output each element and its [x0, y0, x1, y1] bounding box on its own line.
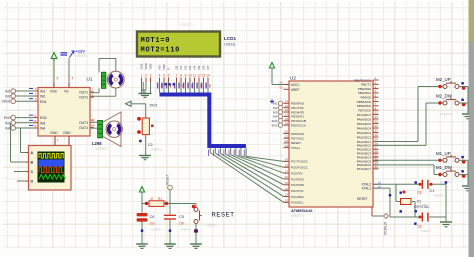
- svg-text:22: 22: [285, 139, 289, 143]
- svg-text:R1: R1: [158, 197, 162, 201]
- svg-text:PC0/SCL: PC0/SCL: [291, 201, 304, 205]
- svg-text:XTAL1: XTAL1: [291, 146, 300, 150]
- svg-text:PA6/ADC6: PA6/ADC6: [357, 117, 372, 121]
- svg-text:11: 11: [193, 74, 197, 78]
- svg-text:9: 9: [185, 74, 187, 78]
- svg-text:12: 12: [197, 74, 201, 78]
- svg-text:OUT2: OUT2: [79, 96, 88, 100]
- svg-text:D6: D6: [202, 65, 206, 69]
- svg-text:EN2: EN2: [40, 116, 47, 120]
- svg-text:11: 11: [91, 118, 94, 122]
- svg-text:MOT2=110: MOT2=110: [141, 47, 181, 55]
- svg-text:10: 10: [188, 74, 192, 78]
- svg-text:3: 3: [150, 74, 152, 78]
- svg-text:PA7/ADC7: PA7/ADC7: [357, 167, 372, 171]
- svg-text:<TEXT>: <TEXT>: [180, 228, 191, 232]
- svg-text:4: 4: [72, 77, 74, 81]
- svg-text:29: 29: [285, 158, 289, 162]
- svg-text:47: 47: [150, 197, 154, 201]
- svg-text:IN1: IN1: [40, 90, 45, 94]
- svg-text:22: 22: [285, 199, 289, 203]
- svg-text:23: 23: [285, 193, 289, 197]
- svg-text:PA5/ADC5: PA5/ADC5: [357, 122, 372, 126]
- svg-text:37: 37: [375, 129, 379, 133]
- svg-text:14: 14: [206, 74, 210, 78]
- svg-text:12: 12: [33, 124, 37, 128]
- svg-text:IN2: IN2: [5, 95, 10, 99]
- svg-text:VDD: VDD: [144, 62, 148, 69]
- svg-text:D4: D4: [193, 65, 197, 69]
- svg-text:ATMEGA16: ATMEGA16: [291, 208, 313, 213]
- svg-text:RESET: RESET: [357, 197, 368, 201]
- svg-text:<TEXT>: <TEXT>: [206, 224, 217, 228]
- svg-text:VEN1: VEN1: [2, 100, 11, 104]
- svg-text:C6: C6: [150, 215, 155, 219]
- svg-text:9: 9: [57, 77, 59, 81]
- svg-text:D7: D7: [206, 65, 210, 69]
- svg-text:<TEXT>: <TEXT>: [420, 229, 431, 233]
- svg-text:C2: C2: [148, 143, 153, 147]
- svg-text:1: 1: [141, 74, 143, 78]
- svg-text:PD7/OC2: PD7/OC2: [291, 137, 304, 141]
- svg-text:EN2: EN2: [4, 116, 11, 120]
- svg-text:<TEXT>: <TEXT>: [151, 228, 162, 232]
- svg-text:IN1: IN1: [5, 90, 10, 94]
- svg-text:D3: D3: [188, 65, 192, 69]
- svg-text:D1: D1: [179, 65, 183, 69]
- svg-text:U2: U2: [290, 76, 296, 81]
- svg-text:GND: GND: [50, 131, 58, 135]
- svg-text:M2_DW: M2_DW: [436, 94, 453, 99]
- svg-text:+12V: +12V: [76, 49, 86, 54]
- svg-text:VSS: VSS: [140, 63, 144, 69]
- svg-text:2: 2: [145, 74, 147, 78]
- svg-text:22p: 22p: [417, 191, 423, 195]
- svg-text:PA2/ADC2: PA2/ADC2: [357, 135, 372, 139]
- svg-text:33: 33: [375, 111, 379, 115]
- svg-text:20: 20: [285, 130, 289, 134]
- svg-text:<TEXT>: <TEXT>: [150, 148, 162, 152]
- svg-text:28: 28: [285, 163, 289, 167]
- svg-text:D: D: [31, 180, 34, 184]
- svg-text:10u: 10u: [150, 222, 156, 226]
- svg-text:XTAL1: XTAL1: [361, 186, 371, 190]
- svg-text:OUT3: OUT3: [79, 121, 88, 125]
- svg-text:10: 10: [33, 119, 37, 123]
- svg-text:PA7/ADC7: PA7/ADC7: [357, 113, 372, 117]
- svg-text:RESET: RESET: [166, 174, 170, 185]
- svg-text:M1_UP: M1_UP: [436, 151, 451, 156]
- svg-text:<TEXT>: <TEXT>: [291, 214, 303, 218]
- svg-text:VSS: VSS: [50, 90, 58, 94]
- svg-text:L298: L298: [92, 141, 102, 146]
- svg-text:A: A: [31, 151, 34, 155]
- svg-text:IN3: IN3: [40, 121, 45, 125]
- svg-text:AVCC: AVCC: [291, 83, 300, 87]
- svg-text:34: 34: [375, 115, 379, 119]
- svg-text:PC5/TDI: PC5/TDI: [291, 171, 303, 175]
- svg-text:C: C: [31, 170, 34, 174]
- svg-text:MOT1=0: MOT1=0: [141, 37, 171, 45]
- svg-text:B: B: [31, 161, 34, 165]
- svg-text:VS: VS: [64, 90, 69, 94]
- svg-text:<TEXT>: <TEXT>: [179, 23, 194, 27]
- svg-text:PC1/SDA: PC1/SDA: [291, 195, 304, 199]
- svg-text:21: 21: [285, 134, 289, 138]
- svg-text:PC4/TDO: PC4/TDO: [291, 177, 305, 181]
- svg-text:GND: GND: [63, 131, 71, 135]
- svg-text:D0: D0: [175, 65, 179, 69]
- svg-text:PC7/TOSC2: PC7/TOSC2: [291, 160, 308, 164]
- svg-text:26: 26: [285, 175, 289, 179]
- svg-text:IN4: IN4: [40, 127, 45, 131]
- svg-text:EN2: EN2: [272, 123, 278, 127]
- svg-text:LM016L: LM016L: [224, 43, 236, 47]
- svg-text:19: 19: [285, 121, 289, 125]
- svg-text:D2: D2: [184, 65, 188, 69]
- svg-text:32: 32: [375, 165, 379, 169]
- svg-text:C5: C5: [179, 215, 184, 219]
- svg-text:27: 27: [285, 169, 289, 173]
- svg-text:4: 4: [159, 74, 161, 78]
- svg-text:<TEXT>: <TEXT>: [440, 113, 452, 117]
- svg-text:RS: RS: [158, 65, 162, 69]
- svg-text:<TEXT>: <TEXT>: [418, 203, 429, 207]
- svg-text:<TEXT>: <TEXT>: [76, 54, 88, 58]
- svg-text:RESET: RESET: [291, 141, 301, 145]
- svg-text:PC6/TOSC1: PC6/TOSC1: [291, 166, 308, 170]
- svg-text:10n: 10n: [179, 222, 185, 226]
- svg-text:AREF: AREF: [291, 88, 300, 92]
- svg-text:RESET: RESET: [212, 213, 235, 219]
- svg-text:E: E: [167, 67, 171, 69]
- svg-text:24: 24: [285, 187, 289, 191]
- svg-text:OUT1: OUT1: [79, 91, 88, 95]
- svg-text:<TEXT>: <TEXT>: [96, 147, 108, 151]
- svg-text:OUT4: OUT4: [79, 126, 88, 130]
- svg-text:22p: 22p: [417, 225, 423, 229]
- svg-text:PD6/ICP1: PD6/ICP1: [291, 132, 305, 136]
- svg-text:PD5/OC1A: PD5/OC1A: [291, 123, 306, 127]
- svg-text:IN2: IN2: [40, 95, 45, 99]
- svg-text:13: 13: [202, 74, 206, 78]
- svg-text:U1: U1: [87, 77, 93, 82]
- svg-text:25: 25: [285, 181, 289, 185]
- svg-text:IN3: IN3: [5, 121, 10, 125]
- svg-text:PB7/SCK: PB7/SCK: [358, 108, 371, 112]
- svg-text:PA3/ADC3: PA3/ADC3: [357, 131, 372, 135]
- svg-text:PC2/TCK: PC2/TCK: [291, 189, 304, 193]
- svg-text:ATMEGA: ATMEGA: [383, 222, 387, 236]
- svg-text:23: 23: [285, 144, 289, 148]
- svg-text:36: 36: [375, 124, 379, 128]
- svg-text:EN1: EN1: [40, 100, 47, 104]
- svg-text:5: 5: [163, 74, 165, 78]
- svg-text:7: 7: [176, 74, 178, 78]
- svg-text:PA4/ADC4: PA4/ADC4: [357, 126, 372, 130]
- svg-text:C1: C1: [430, 189, 435, 193]
- svg-text:D5: D5: [197, 65, 201, 69]
- svg-text:11: 11: [34, 114, 37, 118]
- svg-text:M2_UP: M2_UP: [436, 77, 451, 82]
- svg-text:M1_DW: M1_DW: [436, 165, 453, 170]
- svg-text:35: 35: [375, 120, 379, 124]
- svg-text:RW: RW: [162, 64, 166, 69]
- svg-text:8: 8: [180, 74, 182, 78]
- svg-text:VEE: VEE: [149, 63, 153, 69]
- svg-text:32: 32: [279, 86, 283, 90]
- svg-text:LCD1: LCD1: [224, 36, 236, 41]
- svg-text:IN4: IN4: [5, 127, 10, 131]
- svg-text:6: 6: [168, 74, 170, 78]
- svg-text:PC3/TMS: PC3/TMS: [291, 183, 304, 187]
- svg-text:<TEXT>: <TEXT>: [433, 194, 444, 198]
- svg-text:38: 38: [375, 133, 379, 137]
- svg-text:5V/1: 5V/1: [150, 103, 159, 108]
